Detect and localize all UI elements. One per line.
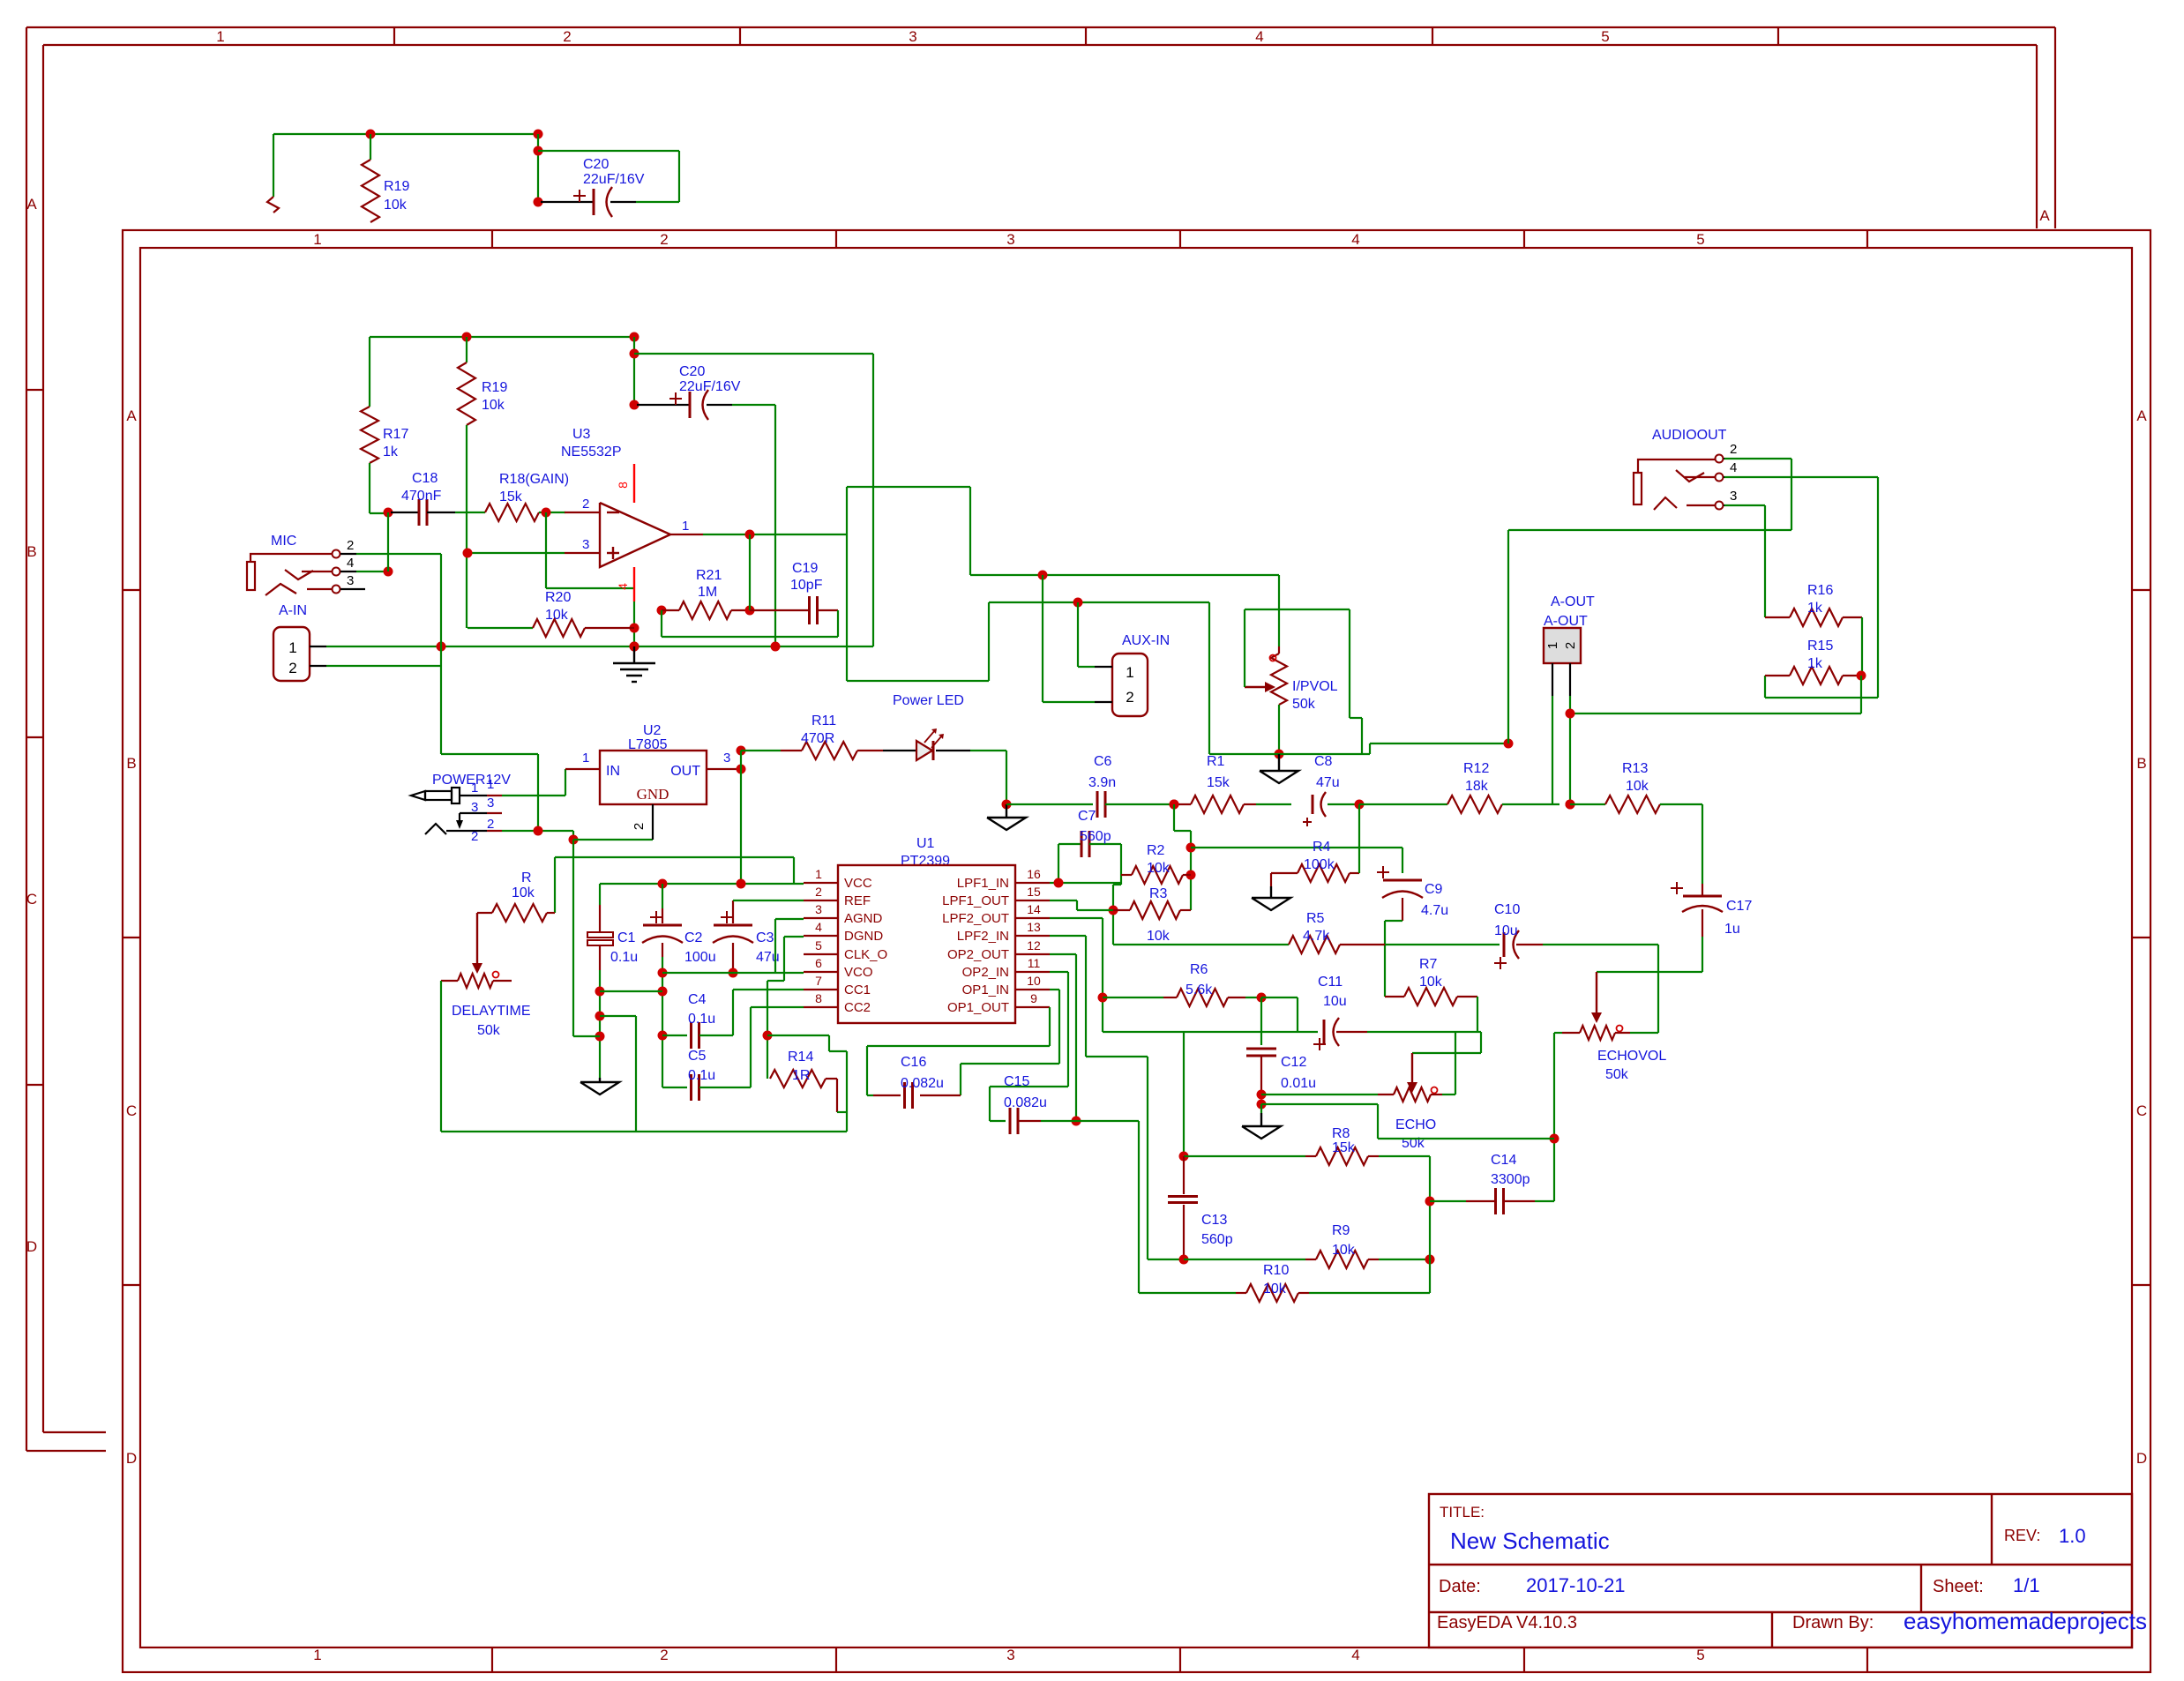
svg-text:EasyEDA V4.10.3: EasyEDA V4.10.3 (1437, 1613, 1577, 1632)
svg-text:A: A (2039, 207, 2050, 224)
svg-text:R3: R3 (1149, 886, 1168, 901)
svg-text:LPF2_OUT: LPF2_OUT (942, 911, 1009, 926)
wire R feed (555, 856, 794, 858)
svg-text:R5: R5 (1306, 911, 1325, 926)
wire DGND route (784, 936, 804, 938)
wire pin13 run (1050, 935, 1086, 937)
U1 pin 9 stub (1015, 1006, 1050, 1008)
svg-text:C13: C13 (1201, 1213, 1227, 1228)
svg-text:VCO: VCO (844, 965, 873, 980)
svg-text:A-IN: A-IN (279, 603, 307, 618)
svg-text:560p: 560p (1201, 1232, 1233, 1247)
svg-text:470nF: 470nF (401, 489, 442, 504)
wire MIC tip net (356, 553, 441, 555)
capacitor C8 (1312, 795, 1314, 814)
capacitor C15 (1009, 1108, 1012, 1134)
wire pin12 run (1050, 953, 1076, 955)
wire staircase to bus (767, 1035, 829, 1036)
capacitor C20 (outer copy) (541, 201, 594, 203)
svg-text:0.1u: 0.1u (610, 950, 638, 965)
svg-text:C10: C10 (1494, 902, 1520, 917)
svg-text:C7: C7 (1078, 809, 1096, 824)
wire op-out up and right (846, 487, 848, 681)
svg-text:1: 1 (216, 28, 224, 45)
svg-text:C12: C12 (1281, 1055, 1306, 1070)
U1 pin 12 stub (1015, 953, 1050, 955)
svg-text:1M: 1M (698, 585, 717, 600)
svg-text:1: 1 (1545, 642, 1560, 649)
wire C20 right to A-IN row (872, 354, 874, 646)
svg-text:easyhomemadeprojects: easyhomemadeprojects (1904, 1608, 2147, 1634)
svg-text:IN: IN (606, 764, 620, 779)
svg-text:10k: 10k (482, 398, 505, 413)
svg-text:2: 2 (582, 497, 589, 512)
svg-text:15k: 15k (1332, 1140, 1356, 1155)
wire power pin1 to U2 IN (502, 795, 565, 796)
wire pin15 to R3 (1050, 900, 1077, 901)
svg-text:1: 1 (582, 751, 589, 766)
wire R21/C19 return loop (661, 610, 662, 637)
svg-text:3: 3 (723, 751, 730, 766)
capacitor C11 (1323, 1020, 1326, 1044)
svg-text:47u: 47u (1316, 775, 1340, 790)
svg-text:AUDIOOUT: AUDIOOUT (1652, 428, 1727, 443)
wire power pin2 ground jog (502, 830, 573, 832)
svg-text:B: B (126, 755, 136, 772)
U1 pin 8 stub (804, 1006, 838, 1008)
svg-text:10k: 10k (1626, 779, 1649, 794)
svg-text:MIC: MIC (271, 534, 296, 549)
svg-text:R4: R4 (1313, 840, 1331, 855)
svg-text:560p: 560p (1080, 829, 1111, 844)
wire signal run to AUX and pot (989, 601, 1209, 603)
capacitor C5 (662, 1087, 687, 1088)
capacitor C14 (1430, 1200, 1466, 1202)
svg-text:OUT: OUT (670, 764, 700, 779)
svg-text:R9: R9 (1332, 1223, 1350, 1238)
svg-text:ECHOVOL: ECHOVOL (1597, 1049, 1666, 1064)
svg-text:1: 1 (471, 781, 478, 796)
U1 pin 7 stub (804, 989, 838, 990)
wire lower branch to AUX row (847, 680, 989, 682)
svg-text:3: 3 (815, 902, 822, 916)
svg-text:3300p: 3300p (1491, 1172, 1530, 1187)
svg-text:50k: 50k (1605, 1067, 1629, 1082)
svg-text:REV:: REV: (2004, 1527, 2040, 1544)
svg-text:1k: 1k (383, 445, 399, 459)
wire ECHOVOL left down (1554, 1032, 1562, 1034)
svg-text:3: 3 (909, 28, 916, 45)
resistor R6 (1103, 997, 1163, 998)
svg-text:10k: 10k (1147, 861, 1171, 876)
svg-text:1/1: 1/1 (2013, 1574, 2040, 1596)
wire R15 node to A-OUT (1860, 676, 1862, 713)
svg-text:1R: 1R (792, 1068, 810, 1083)
svg-text:U1: U1 (916, 836, 935, 851)
svg-text:0.1u: 0.1u (688, 1068, 715, 1083)
svg-text:4.7k: 4.7k (1303, 929, 1330, 944)
wire R2R4 node (1170, 800, 1179, 810)
svg-text:R12: R12 (1463, 761, 1489, 776)
svg-text:13: 13 (1027, 920, 1041, 934)
main sheet border (123, 230, 2150, 1672)
svg-text:C6: C6 (1094, 754, 1112, 769)
wire C15 to R10 row (1076, 1120, 1139, 1122)
svg-text:OP2_IN: OP2_IN (962, 965, 1009, 980)
svg-text:New Schematic: New Schematic (1450, 1528, 1610, 1554)
wire pin11 run (1050, 971, 1068, 973)
resistor R13 (1570, 803, 1605, 805)
svg-text:R13: R13 (1622, 761, 1648, 776)
U1 pin 6 stub (804, 971, 838, 973)
svg-text:R16: R16 (1807, 583, 1833, 598)
svg-text:NE5532P: NE5532P (561, 445, 622, 459)
potentiometer I/PVOL (1278, 575, 1280, 646)
svg-text:1k: 1k (1807, 656, 1823, 671)
svg-text:6: 6 (815, 956, 822, 970)
resistor R9 (1184, 1259, 1305, 1260)
svg-text:C: C (2136, 1102, 2147, 1119)
svg-text:R11: R11 (812, 713, 836, 728)
svg-text:REF: REF (844, 893, 871, 908)
svg-text:AUX-IN: AUX-IN (1122, 633, 1170, 648)
svg-text:C19: C19 (792, 561, 818, 576)
capacitor C17 (1702, 804, 1703, 884)
svg-text:1k: 1k (1807, 601, 1823, 616)
svg-text:22uF/16V: 22uF/16V (583, 172, 645, 187)
svg-text:5: 5 (815, 938, 822, 953)
wire C11 to ECHO wiper (1480, 1032, 1482, 1053)
wire rows C1-C2 (600, 990, 662, 992)
op-amp U3 (600, 503, 670, 567)
svg-text:15k: 15k (499, 489, 523, 504)
wire MIC ring net (356, 571, 388, 572)
svg-text:B: B (26, 543, 36, 560)
svg-text:16: 16 (1027, 867, 1041, 881)
svg-text:C8: C8 (1314, 754, 1333, 769)
resistor R5 (1113, 944, 1289, 945)
svg-text:C20: C20 (583, 157, 609, 172)
svg-text:LPF1_IN: LPF1_IN (957, 876, 1009, 891)
svg-text:R8: R8 (1332, 1126, 1350, 1141)
svg-text:R6: R6 (1190, 962, 1208, 977)
svg-text:100u: 100u (684, 950, 716, 965)
wire U2 out node (737, 765, 746, 774)
svg-text:2: 2 (487, 817, 494, 832)
svg-text:2: 2 (288, 660, 296, 676)
svg-text:C9: C9 (1425, 882, 1443, 897)
svg-text:0.082u: 0.082u (901, 1076, 944, 1091)
wire audioout pin4 net (1724, 476, 1878, 478)
wire pot bottom to ground (1278, 705, 1280, 754)
resistor R (554, 857, 556, 913)
wire audioout pin3 net (1724, 504, 1765, 506)
svg-text:10k: 10k (1332, 1243, 1356, 1258)
svg-text:Power LED: Power LED (893, 693, 964, 708)
svg-text:10u: 10u (1494, 923, 1518, 938)
svg-text:2: 2 (471, 829, 478, 844)
svg-text:PT2399: PT2399 (901, 854, 950, 869)
U1 pin 4 stub (804, 935, 838, 937)
svg-text:4: 4 (1351, 1647, 1359, 1663)
svg-text:CLK_O: CLK_O (844, 947, 887, 962)
capacitor C16 (920, 1095, 961, 1096)
svg-text:10: 10 (1027, 974, 1041, 988)
wire R8/R9/C14 right column (1429, 1156, 1431, 1293)
svg-text:4: 4 (616, 583, 630, 590)
wire C12 ground node (1261, 1103, 1378, 1105)
svg-text:AGND: AGND (844, 911, 883, 926)
title block (1429, 1494, 2132, 1647)
svg-text:1u: 1u (1724, 922, 1740, 937)
svg-text:C14: C14 (1491, 1153, 1516, 1168)
svg-text:3: 3 (471, 800, 478, 815)
svg-text:10k: 10k (512, 885, 535, 900)
wire audio-out shield run (1369, 743, 1371, 754)
wire op-amp + node (467, 552, 565, 554)
svg-text:VCC: VCC (844, 876, 872, 891)
svg-text:D: D (2136, 1450, 2147, 1467)
svg-text:U2: U2 (643, 723, 662, 738)
svg-text:2: 2 (347, 538, 354, 553)
svg-text:0.1u: 0.1u (688, 1012, 715, 1027)
svg-text:R19: R19 (384, 179, 409, 194)
wire DELAYTIME loop (440, 981, 442, 1132)
svg-text:22uF/16V: 22uF/16V (679, 379, 741, 394)
resistor R16 (1765, 616, 1790, 618)
svg-text:C20: C20 (679, 364, 705, 379)
wire down to power (441, 753, 538, 755)
svg-text:50k: 50k (477, 1023, 501, 1038)
svg-text:C18: C18 (412, 471, 438, 486)
svg-text:R14: R14 (788, 1050, 813, 1065)
svg-text:12: 12 (1027, 938, 1041, 953)
svg-text:I/PVOL: I/PVOL (1292, 679, 1338, 694)
svg-text:R15: R15 (1807, 639, 1833, 654)
svg-text:R7: R7 (1419, 957, 1438, 972)
svg-text:LPF1_OUT: LPF1_OUT (942, 893, 1009, 908)
wire inverting feedback (545, 512, 547, 588)
resistor R4 (1271, 872, 1298, 874)
svg-text:R17: R17 (383, 427, 408, 442)
svg-text:8: 8 (815, 991, 822, 1005)
ground under C1 (599, 1078, 601, 1082)
svg-text:C: C (26, 891, 37, 908)
resistor R3 (1113, 909, 1130, 911)
svg-text:10pF: 10pF (790, 578, 823, 593)
wire REF row (733, 900, 804, 901)
resistor R17 clipped stub (outer) (267, 197, 279, 213)
svg-text:3: 3 (1006, 1647, 1014, 1663)
svg-text:2: 2 (632, 823, 647, 830)
svg-text:10k: 10k (1147, 929, 1171, 944)
wire pin16 net (1050, 882, 1121, 884)
svg-text:R1: R1 (1207, 754, 1225, 769)
capacitor C18 (384, 508, 393, 518)
svg-text:C2: C2 (684, 930, 703, 945)
U1 pin 11 stub (1015, 971, 1050, 973)
wire CC1 route (733, 989, 804, 990)
svg-text:3: 3 (347, 573, 354, 588)
svg-text:2017-10-21: 2017-10-21 (1526, 1574, 1626, 1596)
potentiometer DELAYTIME (476, 913, 478, 965)
resistor R19 (outer copy) (370, 134, 371, 160)
U1 pin 14 stub (1015, 917, 1050, 919)
capacitor C6 (1006, 803, 1093, 805)
wire C17 to echovol wiper (1597, 971, 1702, 973)
wire A-IN pin1 net (signal row) (326, 646, 873, 647)
wire p14 run (1050, 917, 1103, 919)
svg-text:10k: 10k (1263, 1281, 1287, 1296)
svg-text:5: 5 (1696, 231, 1704, 248)
capacitor C20 (637, 404, 690, 406)
svg-text:1: 1 (1126, 664, 1133, 681)
svg-text:D: D (126, 1450, 137, 1467)
resistor R14 (770, 1070, 826, 1087)
U1 pin 16 stub (1015, 882, 1050, 884)
svg-text:A: A (2136, 407, 2147, 424)
svg-text:1.0: 1.0 (2059, 1525, 2086, 1547)
svg-text:5: 5 (1601, 28, 1609, 45)
svg-text:C4: C4 (688, 992, 707, 1007)
wire op out column (703, 534, 847, 535)
resistor R1 (1174, 803, 1191, 805)
svg-text:4: 4 (1351, 231, 1359, 248)
resistor R2 (1121, 874, 1132, 876)
resistor R15 (1765, 675, 1790, 676)
svg-text:1: 1 (313, 1647, 321, 1663)
resistor R21 (657, 606, 667, 616)
U1 pin 10 stub (1015, 989, 1050, 990)
svg-text:DGND: DGND (844, 929, 883, 944)
wire C9 to R5/R7 (1385, 920, 1402, 922)
capacitor C1 (599, 884, 601, 905)
resistor R20 (467, 627, 533, 629)
wire main top net (370, 336, 634, 338)
svg-text:U3: U3 (572, 427, 591, 442)
svg-text:10k: 10k (1419, 975, 1443, 990)
resistor R19 (466, 337, 467, 362)
svg-text:R10: R10 (1263, 1263, 1289, 1278)
resistor R10 (1139, 1292, 1236, 1294)
wire C11 row (1103, 1031, 1318, 1033)
svg-text:18k: 18k (1465, 779, 1489, 794)
svg-text:R2: R2 (1147, 843, 1165, 858)
svg-text:15: 15 (1027, 885, 1041, 899)
wire pin10 run (1050, 989, 1059, 990)
op-amp pin 8 stem (633, 464, 635, 503)
svg-text:2: 2 (1563, 642, 1578, 649)
svg-text:A: A (26, 196, 37, 213)
svg-text:3: 3 (487, 796, 494, 811)
resistor R11 (741, 750, 781, 751)
wire C20 column (633, 337, 635, 405)
wire CC2 route (751, 1006, 804, 1008)
svg-text:B: B (2136, 755, 2146, 772)
svg-text:3: 3 (1006, 231, 1014, 248)
svg-text:C16: C16 (901, 1055, 926, 1070)
svg-text:15k: 15k (1207, 775, 1230, 790)
svg-text:C3: C3 (756, 930, 774, 945)
svg-text:4: 4 (347, 556, 354, 571)
svg-text:2: 2 (563, 28, 571, 45)
U1 pin 15 stub (1015, 900, 1050, 901)
capacitor C10 (1385, 944, 1500, 945)
svg-text:Drawn By:: Drawn By: (1792, 1613, 1874, 1632)
wire outer C20 net (537, 134, 539, 202)
svg-text:10k: 10k (384, 198, 408, 213)
svg-text:ECHO: ECHO (1395, 1117, 1436, 1132)
svg-text:LPF2_IN: LPF2_IN (957, 929, 1009, 944)
svg-text:C1: C1 (617, 930, 636, 945)
svg-text:C11: C11 (1318, 975, 1343, 990)
wire C10 to ECHOVOL (1657, 945, 1659, 1033)
svg-text:0.082u: 0.082u (1004, 1095, 1047, 1110)
svg-text:A-OUT: A-OUT (1551, 594, 1595, 609)
svg-text:1: 1 (487, 777, 494, 792)
capacitor C4 (662, 1035, 687, 1036)
svg-text:CC1: CC1 (844, 982, 871, 997)
wire pin9 run (1049, 1007, 1051, 1046)
wire A-OUT pins down (1552, 696, 1553, 804)
svg-text:50k: 50k (1292, 697, 1316, 712)
resistor R18 (485, 504, 539, 521)
svg-text:DELAYTIME: DELAYTIME (452, 1004, 531, 1019)
svg-text:4: 4 (815, 920, 822, 934)
svg-text:100k: 100k (1304, 857, 1335, 872)
svg-text:OP2_OUT: OP2_OUT (947, 947, 1009, 962)
resistor R12 (1359, 803, 1447, 805)
U1 pin 2 stub (804, 900, 838, 901)
svg-text:5: 5 (1696, 1647, 1704, 1663)
wire AGND row (662, 972, 804, 974)
capacitor C2 (662, 884, 663, 908)
svg-text:2: 2 (815, 885, 822, 899)
svg-text:Date:: Date: (1439, 1577, 1481, 1596)
op-amp pin 4 stem (633, 567, 635, 601)
svg-text:10u: 10u (1323, 994, 1347, 1009)
wire MIC tip down (440, 554, 442, 754)
wire outer top net (273, 133, 538, 135)
svg-text:C5: C5 (688, 1049, 707, 1064)
wire A-IN pin2 joins (326, 665, 441, 667)
svg-text:0.01u: 0.01u (1281, 1076, 1316, 1091)
potentiometer ECHOVOL (1596, 972, 1597, 1014)
capacitor C13 (1183, 1156, 1185, 1194)
svg-text:OP1_OUT: OP1_OUT (947, 1000, 1009, 1015)
svg-text:4.7u: 4.7u (1421, 903, 1448, 918)
potentiometer ECHO (1378, 1094, 1394, 1095)
svg-text:R18(GAIN): R18(GAIN) (499, 472, 569, 487)
U1 pin 1 stub (804, 882, 838, 884)
svg-text:D: D (26, 1238, 37, 1255)
ground near op-amp (633, 646, 635, 663)
svg-text:3: 3 (582, 537, 589, 552)
svg-text:2: 2 (1126, 689, 1133, 706)
svg-text:11: 11 (1028, 956, 1041, 970)
svg-text:A: A (126, 407, 137, 424)
svg-text:R19: R19 (482, 380, 507, 395)
svg-text:4: 4 (1255, 28, 1263, 45)
svg-text:R21: R21 (696, 568, 722, 583)
wire R8 node (1183, 1032, 1185, 1156)
svg-text:CC2: CC2 (844, 1000, 871, 1015)
svg-text:GND: GND (637, 786, 669, 803)
svg-text:A-OUT: A-OUT (1544, 614, 1588, 629)
svg-text:3: 3 (1730, 489, 1737, 504)
capacitor C7 parallel loop (1058, 844, 1059, 883)
wire VCC row (600, 883, 804, 885)
